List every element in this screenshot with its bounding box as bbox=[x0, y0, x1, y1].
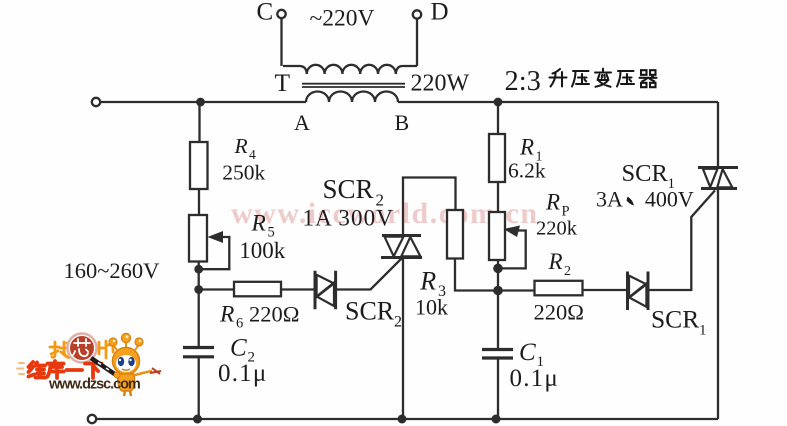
logo dzsc.com (decorative site logo) bbox=[17, 333, 161, 396]
wire terminal D lead bbox=[416, 19, 418, 66]
wire diac to gate bbox=[336, 259, 402, 290]
wire diac SCR1 to gate bbox=[648, 190, 715, 290]
resistor R1 bbox=[489, 134, 505, 182]
svg-text:6: 6 bbox=[236, 316, 243, 332]
svg-text:1A 300V: 1A 300V bbox=[303, 206, 394, 231]
node junction top-left branch bbox=[196, 98, 205, 107]
wire right branch upper bbox=[497, 102, 499, 134]
svg-text:220Ω: 220Ω bbox=[249, 302, 299, 327]
resistor R6 bbox=[234, 282, 281, 297]
wire to R2 bbox=[498, 289, 535, 291]
diac SCR2 bbox=[315, 271, 336, 310]
svg-text:C: C bbox=[519, 339, 536, 366]
node bottom rail junction C2 bbox=[193, 415, 202, 424]
svg-text:0.1μ: 0.1μ bbox=[510, 365, 559, 392]
resistor R4 bbox=[190, 142, 208, 189]
wire right rail lower bbox=[717, 189, 719, 420]
svg-text:C: C bbox=[257, 0, 274, 26]
ideographic comma in 3A,400V bbox=[627, 197, 635, 206]
svg-text:www.dzsc.com: www.dzsc.com bbox=[48, 377, 141, 393]
svg-text:250k: 250k bbox=[222, 161, 265, 185]
resistor RP potentiometer bbox=[489, 212, 505, 260]
svg-text:2: 2 bbox=[564, 264, 571, 279]
terminal bottom-left bbox=[88, 415, 96, 423]
terminal top-left bbox=[92, 98, 100, 106]
svg-text:R: R bbox=[234, 134, 248, 158]
svg-text:B: B bbox=[395, 110, 410, 135]
svg-text:R: R bbox=[545, 190, 560, 215]
wire RP bottom to C1 bbox=[497, 260, 499, 349]
wire C1 to bottom rail bbox=[497, 358, 499, 419]
wire R2 to diac SCR1 bbox=[583, 289, 628, 291]
svg-text:R: R bbox=[219, 302, 234, 328]
svg-text:3A400V: 3A400V bbox=[596, 187, 694, 212]
wire R3 bottom bbox=[455, 259, 498, 291]
resistor R3 bbox=[447, 210, 463, 259]
triac SCR1 bbox=[698, 168, 738, 189]
node junction R6 branch bbox=[194, 285, 203, 294]
wire bottom rail bbox=[96, 418, 718, 420]
svg-text:160~260V: 160~260V bbox=[64, 258, 160, 283]
R5 wiper arrow bbox=[199, 237, 230, 269]
svg-text:100k: 100k bbox=[239, 238, 285, 263]
wire C2 to bottom rail bbox=[198, 357, 200, 419]
wire terminal C lead bbox=[280, 18, 282, 66]
svg-text:SCR: SCR bbox=[345, 297, 395, 326]
node bottom rail junction SCR2 bbox=[398, 415, 407, 424]
svg-text:220Ω: 220Ω bbox=[534, 300, 584, 325]
svg-text:R: R bbox=[519, 135, 534, 160]
node junction RP wiper bbox=[493, 264, 503, 274]
svg-text:A: A bbox=[294, 110, 310, 135]
transformer T secondary winding bbox=[283, 65, 417, 74]
wire top rail bbox=[100, 101, 718, 103]
capacitor C1 bbox=[482, 350, 513, 359]
wire triac SCR2 top to R3 bbox=[403, 178, 456, 236]
transformer T primary winding bbox=[306, 92, 398, 103]
svg-text:10k: 10k bbox=[415, 295, 448, 320]
resistor R5 potentiometer bbox=[189, 215, 207, 262]
svg-text:~220V: ~220V bbox=[310, 6, 375, 32]
svg-text:SCR: SCR bbox=[323, 174, 374, 204]
svg-text:1: 1 bbox=[699, 323, 707, 339]
wire R1-RP bbox=[497, 182, 499, 212]
node junction R2 branch bbox=[493, 286, 503, 296]
terminal D bbox=[413, 10, 421, 18]
svg-text:R: R bbox=[251, 211, 266, 237]
svg-text:220W: 220W bbox=[411, 71, 470, 97]
wire triac SCR2 anode down bbox=[402, 258, 404, 420]
node junction R5 wiper bbox=[194, 265, 203, 274]
svg-text:2: 2 bbox=[394, 314, 402, 331]
svg-text:C: C bbox=[230, 335, 247, 362]
wire left branch upper bbox=[198, 102, 200, 142]
transformer T core bbox=[302, 84, 405, 87]
node junction top-right branch bbox=[494, 98, 503, 107]
svg-text:220k: 220k bbox=[536, 218, 578, 240]
label sheng-ya-bian-ya-qi transformer hanzi bbox=[550, 69, 657, 88]
svg-text:0.1μ: 0.1μ bbox=[218, 360, 267, 387]
wire R4-R5 bbox=[198, 189, 200, 215]
capacitor C2 bbox=[183, 348, 214, 357]
resistor R2 bbox=[535, 281, 583, 296]
svg-text:2:3: 2:3 bbox=[505, 66, 541, 97]
svg-text:SCR: SCR bbox=[651, 305, 699, 334]
wire right rail upper bbox=[717, 102, 719, 168]
wire R5 bottom to C2 bbox=[198, 262, 200, 348]
RP wiper arrow bbox=[498, 231, 526, 269]
diac SCR1 bbox=[628, 272, 649, 311]
svg-text:T: T bbox=[275, 68, 291, 97]
svg-text:SCR: SCR bbox=[622, 160, 669, 187]
triac SCR2 bbox=[381, 236, 422, 258]
wire to R6 bbox=[199, 288, 234, 290]
svg-text:R: R bbox=[548, 249, 563, 274]
svg-text:D: D bbox=[431, 0, 449, 26]
terminal C bbox=[277, 10, 285, 18]
wire R6 to diac bbox=[281, 288, 315, 290]
svg-text:R: R bbox=[419, 267, 436, 296]
svg-text:6.2k: 6.2k bbox=[508, 159, 546, 183]
node bottom rail junction C1 bbox=[492, 415, 501, 424]
